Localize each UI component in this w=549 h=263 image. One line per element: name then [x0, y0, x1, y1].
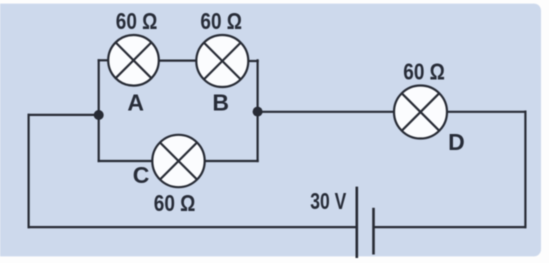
wire: bottom from left rail to battery positive plate — [29, 226, 356, 228]
svg-text:30 V: 30 V — [310, 188, 346, 214]
battery positive plate (long) — [355, 187, 358, 258]
wire: bottom from battery negative plate to right rail — [375, 226, 526, 228]
wire: from lamp D right side to right rail — [447, 111, 525, 113]
wire: lamp B to right branch vertical — [248, 60, 257, 62]
svg-text:60 Ω: 60 Ω — [116, 8, 158, 34]
svg-text:D: D — [448, 129, 465, 155]
lamp C — [152, 135, 204, 187]
lamp A — [108, 35, 159, 86]
svg-text:C: C — [133, 162, 150, 188]
node: left junction dot — [94, 110, 104, 120]
svg-text:A: A — [127, 90, 144, 116]
wire: top horizontal from left rail to left junction — [29, 114, 99, 116]
wire: from right junction to lamp D left side — [258, 111, 394, 113]
wire: right rail vertical — [524, 112, 526, 228]
wire: lamp C to right branch vertical — [205, 160, 258, 162]
wire: left branch vertical (parallel section, left) — [98, 60, 100, 161]
svg-text:60 Ω: 60 Ω — [154, 190, 196, 216]
svg-text:60 Ω: 60 Ω — [200, 8, 242, 34]
node: right junction dot — [253, 107, 263, 117]
wire: right branch vertical (parallel section, right) — [257, 60, 259, 161]
wire: bottom branch into lamp C — [99, 160, 153, 162]
wire: left rail vertical — [28, 115, 30, 227]
wire: top branch into lamp A — [99, 59, 109, 61]
lamp D — [394, 86, 447, 139]
svg-text:60 Ω: 60 Ω — [403, 59, 445, 85]
wire: between lamp A and lamp B — [159, 59, 197, 61]
battery negative plate (short) — [372, 208, 375, 255]
svg-text:B: B — [212, 90, 229, 116]
lamp B — [196, 35, 248, 87]
